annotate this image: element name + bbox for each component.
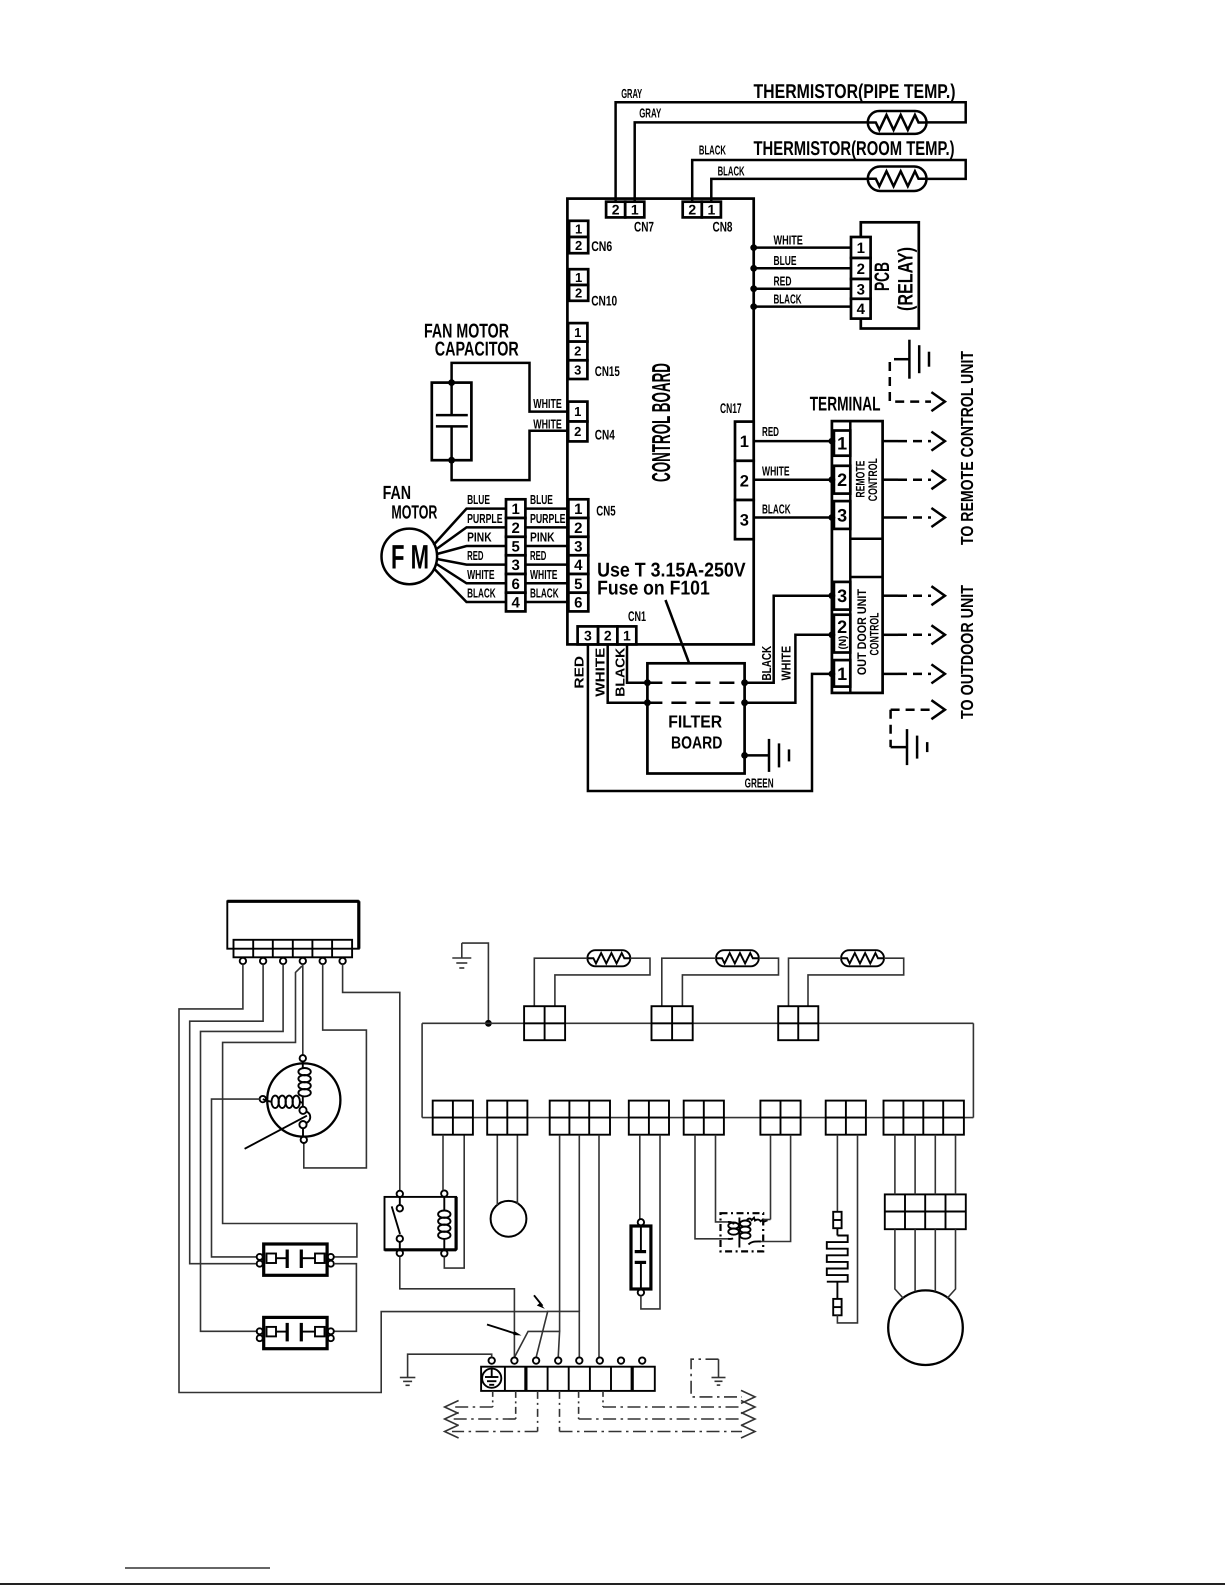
- svg-text:1: 1: [623, 627, 631, 643]
- row2 block 5: [684, 1101, 724, 1135]
- dash-dot line terminal 5 (right arrow): [579, 1391, 755, 1426]
- svg-text:6: 6: [574, 594, 582, 611]
- wires connector to outdoor fan motor: [895, 1229, 956, 1298]
- row2 block 4: [629, 1101, 669, 1135]
- svg-text:TERMINAL: TERMINAL: [810, 394, 881, 416]
- dash-dot line terminal 1 (left arrow): [445, 1391, 493, 1414]
- outdoor terminal strip cells: [234, 940, 353, 958]
- wire C1 lower-right to C2 upper-right: [334, 1264, 356, 1332]
- wire purple FM column 1 label: [467, 511, 503, 526]
- transformer T1: [721, 1213, 764, 1251]
- wire white filter board to terminal 2: [745, 635, 832, 703]
- connector CN4: [568, 402, 615, 443]
- wires block2 to fan motor: [497, 1135, 517, 1206]
- row2 block 6: [760, 1101, 800, 1135]
- svg-text:CN10: CN10: [591, 293, 617, 309]
- svg-text:5: 5: [574, 576, 582, 593]
- svg-text:2: 2: [612, 202, 620, 218]
- svg-text:BLACK: BLACK: [530, 586, 559, 601]
- connector CN6: [569, 221, 612, 254]
- dash-dot line terminal 3 (left arrow): [445, 1391, 538, 1438]
- label to outdoor unit: [957, 585, 977, 719]
- svg-text:PURPLE: PURPLE: [467, 511, 503, 526]
- terminal pin 1 (outdoor): [829, 660, 851, 687]
- outdoor thermistor TH-C: [841, 950, 884, 966]
- strip terminal circle 7: [618, 1357, 624, 1363]
- wire capacitor to CN4 pin2: [452, 416, 568, 480]
- svg-text:WHITE: WHITE: [533, 396, 562, 411]
- bus 1 to bus 2 left link: [421, 1023, 423, 1117]
- wire black CN1-1 to filter board: [613, 644, 648, 696]
- svg-text:RED: RED: [530, 548, 546, 563]
- outdoor thermistor TH-A right lead: [555, 958, 650, 1006]
- svg-text:FILTER: FILTER: [668, 712, 722, 732]
- svg-text:CN17: CN17: [720, 400, 742, 416]
- bus line 1: [422, 1022, 973, 1024]
- strip terminal circle 1: [489, 1357, 495, 1363]
- ground (filter board): [769, 739, 789, 772]
- dashed arrow terminal 2 outdoor: [883, 625, 945, 644]
- relay switch: [392, 1191, 403, 1257]
- outdoor thermistor TH-C right lead: [808, 958, 904, 1006]
- compressor switch actuator line: [245, 1116, 307, 1149]
- terminal pin 2 N (outdoor): [829, 615, 851, 653]
- protective earth symbol in strip: [482, 1369, 501, 1388]
- svg-text:TO REMOTE CONTROL UNIT: TO REMOTE CONTROL UNIT: [957, 351, 977, 545]
- svg-text:1: 1: [631, 202, 639, 218]
- svg-text:CN15: CN15: [595, 363, 620, 379]
- PCB (RELAY) unit: [861, 222, 919, 328]
- svg-text:PCB: PCB: [871, 262, 894, 291]
- svg-text:3: 3: [512, 557, 520, 574]
- connector block B: [652, 1006, 693, 1040]
- annotation arrow 2: [487, 1325, 522, 1336]
- filter board fuse line 1 (dashed): [644, 679, 748, 686]
- crossover trapezoid B: [536, 1311, 579, 1357]
- wire red FM column 2 label: [530, 548, 546, 563]
- outdoor fan motor: [888, 1290, 963, 1365]
- heater fuse 1: [833, 1135, 841, 1229]
- svg-text:WHITE: WHITE: [774, 232, 804, 247]
- svg-text:1: 1: [740, 433, 749, 451]
- wire blue FM column 2 label: [530, 492, 553, 507]
- strip terminal circle 3: [533, 1357, 539, 1363]
- wire black to PCB 4: [750, 291, 851, 310]
- strip terminal circle 5: [576, 1357, 582, 1363]
- terminal block: [810, 394, 883, 693]
- label to remote control unit: [957, 351, 977, 545]
- wire black FM column 1 label: [467, 586, 496, 601]
- svg-text:WHITE: WHITE: [533, 416, 562, 431]
- heater fuse 2: [833, 1135, 857, 1323]
- compressor winding terminal circle top: [300, 1055, 306, 1061]
- terminal pin 1 (remote): [829, 431, 851, 456]
- row2 block 1: [433, 1101, 473, 1135]
- svg-text:CN8: CN8: [713, 218, 733, 234]
- wire pin5 to compressor bottom: [304, 964, 367, 1168]
- svg-text:BOARD: BOARD: [671, 733, 722, 753]
- svg-text:3: 3: [740, 512, 749, 530]
- dash-dot line terminal 4 (right arrow): [560, 1391, 756, 1438]
- svg-text:2: 2: [575, 238, 582, 253]
- relay coil: [438, 1190, 450, 1256]
- connector CN10: [569, 269, 617, 308]
- row2 block 7: [826, 1101, 866, 1135]
- svg-text:CONTROL BOARD: CONTROL BOARD: [646, 363, 676, 482]
- svg-text:CONTROL: CONTROL: [868, 612, 882, 655]
- row2 block 3: [550, 1101, 610, 1135]
- transformer secondary bottom to block6 right: [749, 1135, 791, 1245]
- dashed arrow terminal 1 remote: [883, 432, 945, 451]
- svg-text:2: 2: [857, 261, 865, 278]
- svg-text:Fuse on F101: Fuse on F101: [597, 578, 710, 600]
- bottom terminal strip: [481, 1367, 655, 1391]
- indoor fan motor circle: [491, 1201, 527, 1237]
- svg-text:GRAY: GRAY: [621, 86, 642, 101]
- wire pin1 left rail: [179, 964, 548, 1392]
- svg-text:PINK: PINK: [530, 530, 555, 545]
- wire ground to bus junction: [462, 943, 492, 1027]
- svg-text:(RELAY): (RELAY): [895, 247, 918, 311]
- svg-text:BLACK: BLACK: [774, 291, 802, 306]
- wire red CN1-3 to terminal 1: [572, 644, 832, 791]
- compressor start winding: [263, 1096, 303, 1108]
- wires block3 to bottom strip (trapezoids): [560, 1135, 599, 1358]
- svg-text:BLACK: BLACK: [718, 163, 745, 178]
- capacitor C1: [264, 1244, 327, 1275]
- wire capacitor to CN4 pin1: [452, 363, 568, 412]
- page bottom edge: [0, 1583, 1225, 1585]
- capacitor C2: [264, 1317, 327, 1348]
- wire pin3 to capacitor C2: [201, 964, 284, 1331]
- connector CN8: [683, 202, 733, 235]
- strip terminal circle 6: [597, 1357, 603, 1363]
- filter board: [647, 663, 744, 773]
- dash-dot line terminal 2 (left arrow): [445, 1391, 516, 1426]
- wire gray 1: [616, 86, 966, 202]
- svg-text:3: 3: [584, 627, 592, 643]
- svg-text:BLACK: BLACK: [762, 502, 791, 517]
- wire blue to PCB 2: [750, 253, 851, 272]
- svg-text:BLUE: BLUE: [467, 492, 490, 507]
- wire gray 2: [635, 106, 868, 202]
- svg-text:FAN: FAN: [383, 483, 412, 504]
- terminal pin 3 (remote): [829, 501, 851, 529]
- svg-text:2: 2: [740, 472, 749, 490]
- C1 terminal circles: [257, 1254, 334, 1267]
- svg-text:3: 3: [574, 362, 581, 377]
- compressor main winding: [298, 1062, 310, 1104]
- svg-text:F M: F M: [391, 538, 429, 576]
- svg-text:2: 2: [512, 520, 520, 537]
- svg-text:1: 1: [574, 325, 581, 340]
- row2 block 8: [884, 1101, 964, 1135]
- PCB connector pins 1-4: [851, 237, 871, 319]
- outdoor thermistor TH-C left lead: [789, 958, 842, 1006]
- fan motor capacitor: [424, 321, 519, 464]
- svg-text:PURPLE: PURPLE: [530, 511, 566, 526]
- connector CN1: [578, 608, 647, 645]
- connector block A: [524, 1006, 565, 1040]
- dashed arrow terminal 3 outdoor: [883, 586, 945, 605]
- svg-text:BLACK: BLACK: [467, 586, 496, 601]
- svg-text:(N): (N): [837, 636, 849, 650]
- svg-text:2: 2: [574, 344, 581, 359]
- compressor motor: [267, 1063, 340, 1136]
- svg-text:2: 2: [574, 424, 581, 439]
- row2 block 2: [487, 1101, 527, 1135]
- wire green filter board to ground: [741, 752, 773, 790]
- wire pin2 to capacitor C1: [190, 964, 263, 1263]
- dashed arrow + ground to remote control (top): [890, 340, 945, 411]
- svg-text:BLUE: BLUE: [530, 492, 553, 507]
- dashed arrow terminal 2 remote: [883, 470, 945, 489]
- wire earth terminal to ground: [400, 1354, 492, 1385]
- wire black CN17-3 to terminal: [754, 502, 832, 518]
- outdoor terminal pin 5 circle: [320, 958, 326, 964]
- outdoor thermistor TH-A left lead: [534, 958, 587, 1006]
- svg-text:RED: RED: [467, 548, 483, 563]
- svg-text:CN4: CN4: [595, 426, 615, 442]
- svg-text:RED: RED: [762, 424, 779, 439]
- svg-text:WHITE: WHITE: [530, 567, 558, 582]
- control board: [567, 199, 753, 645]
- svg-text:RED: RED: [572, 656, 587, 689]
- transformer secondary top link to block6: [747, 1135, 771, 1222]
- wire block5 left to transformer primary: [695, 1135, 728, 1239]
- svg-text:BLACK: BLACK: [699, 142, 726, 157]
- power relay box: [385, 1197, 457, 1250]
- thermistor TH1 (pipe temp): [754, 81, 956, 134]
- filter board line 2 (dashed): [644, 699, 748, 706]
- wire black FM column 2 label: [530, 586, 559, 601]
- outdoor terminal pin 3 circle: [280, 958, 286, 964]
- svg-text:CN5: CN5: [596, 503, 616, 519]
- outdoor thermistor TH-B right lead: [682, 958, 778, 1006]
- strip terminal circle 2: [511, 1357, 517, 1363]
- wire relay switch to strip circle 2: [400, 1257, 515, 1358]
- svg-text:BLACK: BLACK: [613, 647, 628, 697]
- svg-text:3: 3: [837, 505, 847, 525]
- svg-text:3: 3: [857, 281, 865, 298]
- svg-text:2: 2: [604, 627, 612, 643]
- svg-text:WHITE: WHITE: [762, 464, 790, 479]
- wire pin6 to relay switch: [343, 964, 400, 1190]
- wire white CN17-2 to terminal: [754, 464, 832, 480]
- svg-text:3: 3: [574, 538, 582, 555]
- outdoor terminal box: [227, 901, 358, 948]
- dashed arrow terminal 3 remote: [883, 508, 945, 527]
- dash-dot line terminal 6 (right arrow): [603, 1391, 755, 1414]
- crossover trapezoid A: [514, 1331, 559, 1357]
- svg-text:1: 1: [707, 202, 715, 218]
- svg-text:4: 4: [857, 301, 866, 318]
- wire pink FM column 1 label: [467, 530, 492, 545]
- wires block8 to connector: [895, 1135, 956, 1195]
- svg-text:1: 1: [575, 222, 582, 237]
- connector CN7: [606, 202, 654, 235]
- svg-text:4: 4: [574, 557, 583, 574]
- wire block5 right to transformer primary top: [716, 1135, 729, 1222]
- svg-text:WHITE: WHITE: [778, 646, 793, 681]
- svg-text:1: 1: [857, 240, 865, 257]
- compressor centrifugal switch: [299, 1103, 310, 1136]
- wire pink FM column 2 label: [530, 530, 555, 545]
- outdoor terminal pin 4 circle: [300, 958, 306, 964]
- footer underline: [125, 1567, 270, 1569]
- outdoor terminal pin 2 circle: [260, 958, 266, 964]
- svg-text:6: 6: [512, 576, 520, 593]
- wire purple FM column 2 label: [530, 511, 566, 526]
- svg-text:WHITE: WHITE: [467, 567, 495, 582]
- terminal pin 3 (outdoor): [829, 582, 851, 610]
- wires connector to CN5: [525, 509, 568, 602]
- svg-text:BLUE: BLUE: [774, 253, 797, 268]
- svg-text:1: 1: [574, 501, 582, 518]
- fan motor wires FM to connector: [434, 509, 507, 602]
- connector CN17: [720, 400, 754, 539]
- wire black filter board to terminal 3: [745, 596, 832, 683]
- outdoor thermistor TH-B: [716, 950, 759, 966]
- svg-text:4: 4: [512, 594, 521, 611]
- wire black 1: [692, 142, 966, 201]
- svg-text:CN1: CN1: [628, 608, 646, 624]
- svg-text:WHITE: WHITE: [593, 647, 608, 696]
- wire white FM column 2 label: [530, 567, 558, 582]
- svg-text:MOTOR: MOTOR: [391, 503, 437, 524]
- dashed arrow terminal 1 outdoor: [883, 664, 945, 683]
- annotation arrow 1: [534, 1295, 545, 1309]
- svg-text:THERMISTOR(ROOM TEMP.): THERMISTOR(ROOM TEMP.): [754, 138, 955, 160]
- svg-text:2: 2: [837, 470, 847, 490]
- svg-text:2: 2: [574, 520, 582, 537]
- fan motor FM: [382, 483, 438, 584]
- strip terminal circle 8: [639, 1357, 645, 1363]
- connector CN15: [568, 323, 620, 379]
- compressor winding terminal circle left: [260, 1096, 266, 1102]
- C2 terminal circles: [257, 1328, 334, 1341]
- svg-text:BLACK: BLACK: [759, 645, 774, 680]
- strip terminal circle 4: [555, 1357, 561, 1363]
- wire pin4 branch to capacitor C2 right: [223, 966, 357, 1257]
- ground (bus): [452, 943, 471, 968]
- svg-text:1: 1: [574, 404, 581, 419]
- svg-text:PINK: PINK: [467, 530, 492, 545]
- outdoor thermistor TH-B left lead: [662, 958, 716, 1006]
- compressor bottom terminal circle: [301, 1137, 307, 1143]
- fan motor intermediate connector (pins 1,2,5,3,6,4): [506, 499, 525, 611]
- wire white FM column 1 label: [467, 567, 495, 582]
- svg-text:2: 2: [688, 202, 696, 218]
- bus 1 to bus 2 right link: [972, 1023, 974, 1117]
- svg-text:1: 1: [837, 664, 847, 684]
- wire red to PCB 3: [750, 273, 851, 292]
- wire start winding to left rail: [212, 1099, 260, 1257]
- right side dash-dot ground: [691, 1359, 755, 1403]
- wire red FM column 1 label: [467, 548, 483, 563]
- thermistor TH2 (room temp): [754, 138, 955, 191]
- svg-text:CN7: CN7: [634, 218, 654, 234]
- svg-text:GRAY: GRAY: [639, 106, 661, 121]
- heater resistive element: [827, 1228, 848, 1299]
- wire relay coil loop: [444, 1135, 464, 1268]
- wire white CN1-2 to filter board: [593, 644, 648, 702]
- wire blue FM column 1 label: [467, 492, 490, 507]
- bus line 2: [422, 1117, 973, 1119]
- wire block1 to relay coil: [442, 1135, 444, 1191]
- outdoor terminal pin 6 circle: [339, 958, 345, 964]
- svg-text:2: 2: [837, 617, 847, 637]
- svg-text:CAPACITOR: CAPACITOR: [435, 339, 519, 361]
- svg-text:RED: RED: [774, 273, 792, 288]
- svg-text:1: 1: [575, 270, 582, 285]
- wire white to PCB 1: [750, 232, 851, 251]
- svg-text:1: 1: [512, 501, 520, 518]
- outdoor terminal pin 1 circle: [240, 958, 246, 964]
- wire red CN17-1 to terminal: [754, 424, 832, 441]
- svg-text:TO OUTDOOR UNIT: TO OUTDOOR UNIT: [957, 585, 977, 719]
- svg-text:1: 1: [837, 434, 847, 454]
- svg-text:3: 3: [837, 586, 847, 606]
- wire pin4 to compressor top: [302, 964, 304, 1055]
- svg-text:GREEN: GREEN: [745, 775, 774, 790]
- connector block C: [778, 1006, 818, 1040]
- fuse pointer arrow: [666, 600, 694, 674]
- terminal pin 2 (remote): [829, 466, 851, 494]
- fuse note text: [597, 559, 746, 599]
- svg-text:CONTROL: CONTROL: [866, 458, 880, 501]
- svg-text:THERMISTOR(PIPE TEMP.): THERMISTOR(PIPE TEMP.): [754, 81, 956, 103]
- svg-text:2: 2: [575, 286, 582, 301]
- connector CN5: [568, 499, 615, 611]
- outdoor thermistor TH-A: [587, 950, 630, 966]
- dashed arrow + ground to outdoor (bottom): [891, 700, 945, 765]
- svg-text:5: 5: [512, 538, 520, 555]
- vertical capacitor C3: [631, 1135, 660, 1309]
- wire black 2: [711, 163, 868, 201]
- svg-text:CN6: CN6: [591, 238, 612, 254]
- outdoor fan connector 4x2: [885, 1194, 966, 1229]
